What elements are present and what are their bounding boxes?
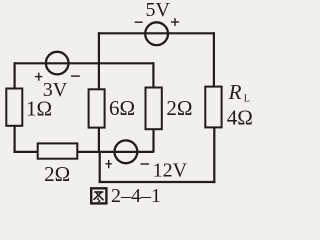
svg-text:6Ω: 6Ω <box>109 96 135 120</box>
polarity minus of 3V <box>71 75 80 77</box>
polarity plus of 3V <box>35 73 42 81</box>
resistor R2v 2-ohm vertical <box>146 88 162 130</box>
svg-text:4Ω: 4Ω <box>227 106 253 130</box>
voltage source V2 3V <box>46 52 69 75</box>
caption hanzi TU (figure) drawn as strokes <box>91 188 106 203</box>
wire 1-ohm top lead <box>14 62 16 88</box>
resistor R2h 2-ohm horizontal <box>38 143 78 158</box>
svg-text:2Ω: 2Ω <box>44 162 70 186</box>
polarity plus of 5V <box>171 18 179 26</box>
wire 2-ohm vertical top lead <box>152 62 154 87</box>
polarity minus of 12V <box>140 163 149 165</box>
wire top rail <box>98 32 215 34</box>
wire bottom rail <box>99 181 216 183</box>
wire 12V rail <box>77 151 153 153</box>
resistor R1 1-ohm <box>6 89 22 126</box>
wire bottom-left horizontal <box>14 151 38 153</box>
svg-text:12V: 12V <box>153 159 188 181</box>
wire 3V rail <box>15 62 154 64</box>
svg-text:L: L <box>244 93 250 104</box>
wire right vertical bottom (RL to bottom rail) <box>213 127 215 183</box>
polarity plus of 12V <box>105 160 111 168</box>
voltage source V1 5V <box>145 22 168 45</box>
wire 1-ohm bottom lead <box>14 126 16 153</box>
wire left-top vertical (top rail to 6-ohm branch) <box>98 32 100 89</box>
svg-text:2Ω: 2Ω <box>166 96 192 120</box>
wire 6-ohm bottom lead <box>98 128 100 153</box>
wire right vertical top (top rail to RL) <box>213 32 215 86</box>
svg-text:R: R <box>228 80 242 104</box>
svg-text:1Ω: 1Ω <box>26 97 52 121</box>
resistor RL 4-ohm <box>205 87 221 128</box>
wire 2-ohm vertical bottom lead <box>152 129 154 152</box>
wire junction drop to bottom rail <box>99 152 101 183</box>
voltage source V3 12V <box>115 140 138 163</box>
polarity minus of 5V <box>135 21 143 23</box>
resistor R6 6-ohm <box>89 89 105 127</box>
svg-text:2–4–1: 2–4–1 <box>111 185 161 207</box>
svg-text:5V: 5V <box>145 0 170 21</box>
